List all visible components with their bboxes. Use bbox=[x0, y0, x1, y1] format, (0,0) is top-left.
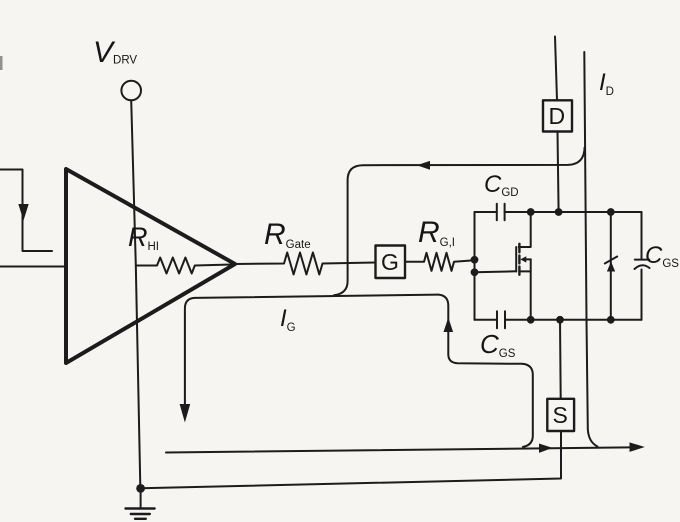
svg-text:RGate: RGate bbox=[264, 218, 311, 251]
svg-text:RG,I: RG,I bbox=[418, 216, 455, 249]
svg-text:D: D bbox=[549, 103, 566, 129]
svg-text:S: S bbox=[553, 402, 568, 428]
svg-text:CGS: CGS bbox=[645, 242, 679, 270]
svg-text:CGS: CGS bbox=[480, 329, 516, 360]
svg-text:VDRV: VDRV bbox=[93, 36, 137, 69]
svg-text:RHI: RHI bbox=[128, 222, 159, 253]
svg-text:CGD: CGD bbox=[484, 171, 519, 199]
svg-text:G: G bbox=[381, 249, 399, 275]
svg-text:IG: IG bbox=[280, 305, 296, 334]
svg-text:ID: ID bbox=[599, 69, 614, 98]
